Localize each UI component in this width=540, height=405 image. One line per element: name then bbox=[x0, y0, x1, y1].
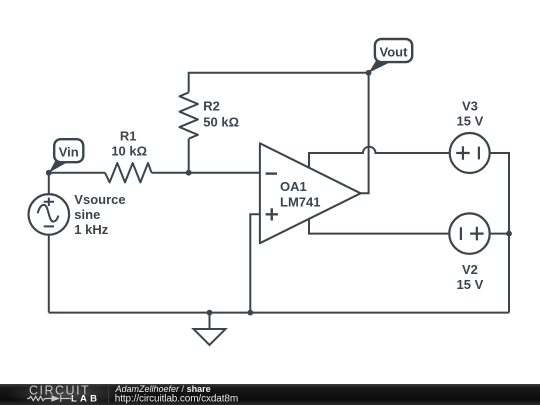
svg-text:R2: R2 bbox=[203, 99, 220, 114]
svg-text:1 kHz: 1 kHz bbox=[74, 222, 108, 237]
svg-text:V3: V3 bbox=[462, 98, 478, 113]
svg-text:http://circuitlab.com/cxdat8m: http://circuitlab.com/cxdat8m bbox=[115, 394, 238, 405]
svg-text:Vout: Vout bbox=[380, 45, 409, 60]
svg-text:LAB: LAB bbox=[71, 394, 100, 405]
svg-text:AdamZellhoefer / share: AdamZellhoefer / share bbox=[115, 384, 211, 394]
svg-text:V2: V2 bbox=[462, 262, 478, 277]
svg-text:Vin: Vin bbox=[59, 144, 79, 159]
svg-text:OA1: OA1 bbox=[280, 179, 307, 194]
svg-text:15 V: 15 V bbox=[457, 277, 484, 292]
svg-text:15 V: 15 V bbox=[457, 113, 484, 128]
svg-text:10 kΩ: 10 kΩ bbox=[111, 144, 147, 159]
svg-text:sine: sine bbox=[74, 207, 100, 222]
svg-text:Vsource: Vsource bbox=[74, 192, 125, 207]
svg-text:R1: R1 bbox=[120, 128, 137, 143]
svg-text:50 kΩ: 50 kΩ bbox=[203, 115, 239, 130]
svg-text:LM741: LM741 bbox=[280, 194, 320, 209]
